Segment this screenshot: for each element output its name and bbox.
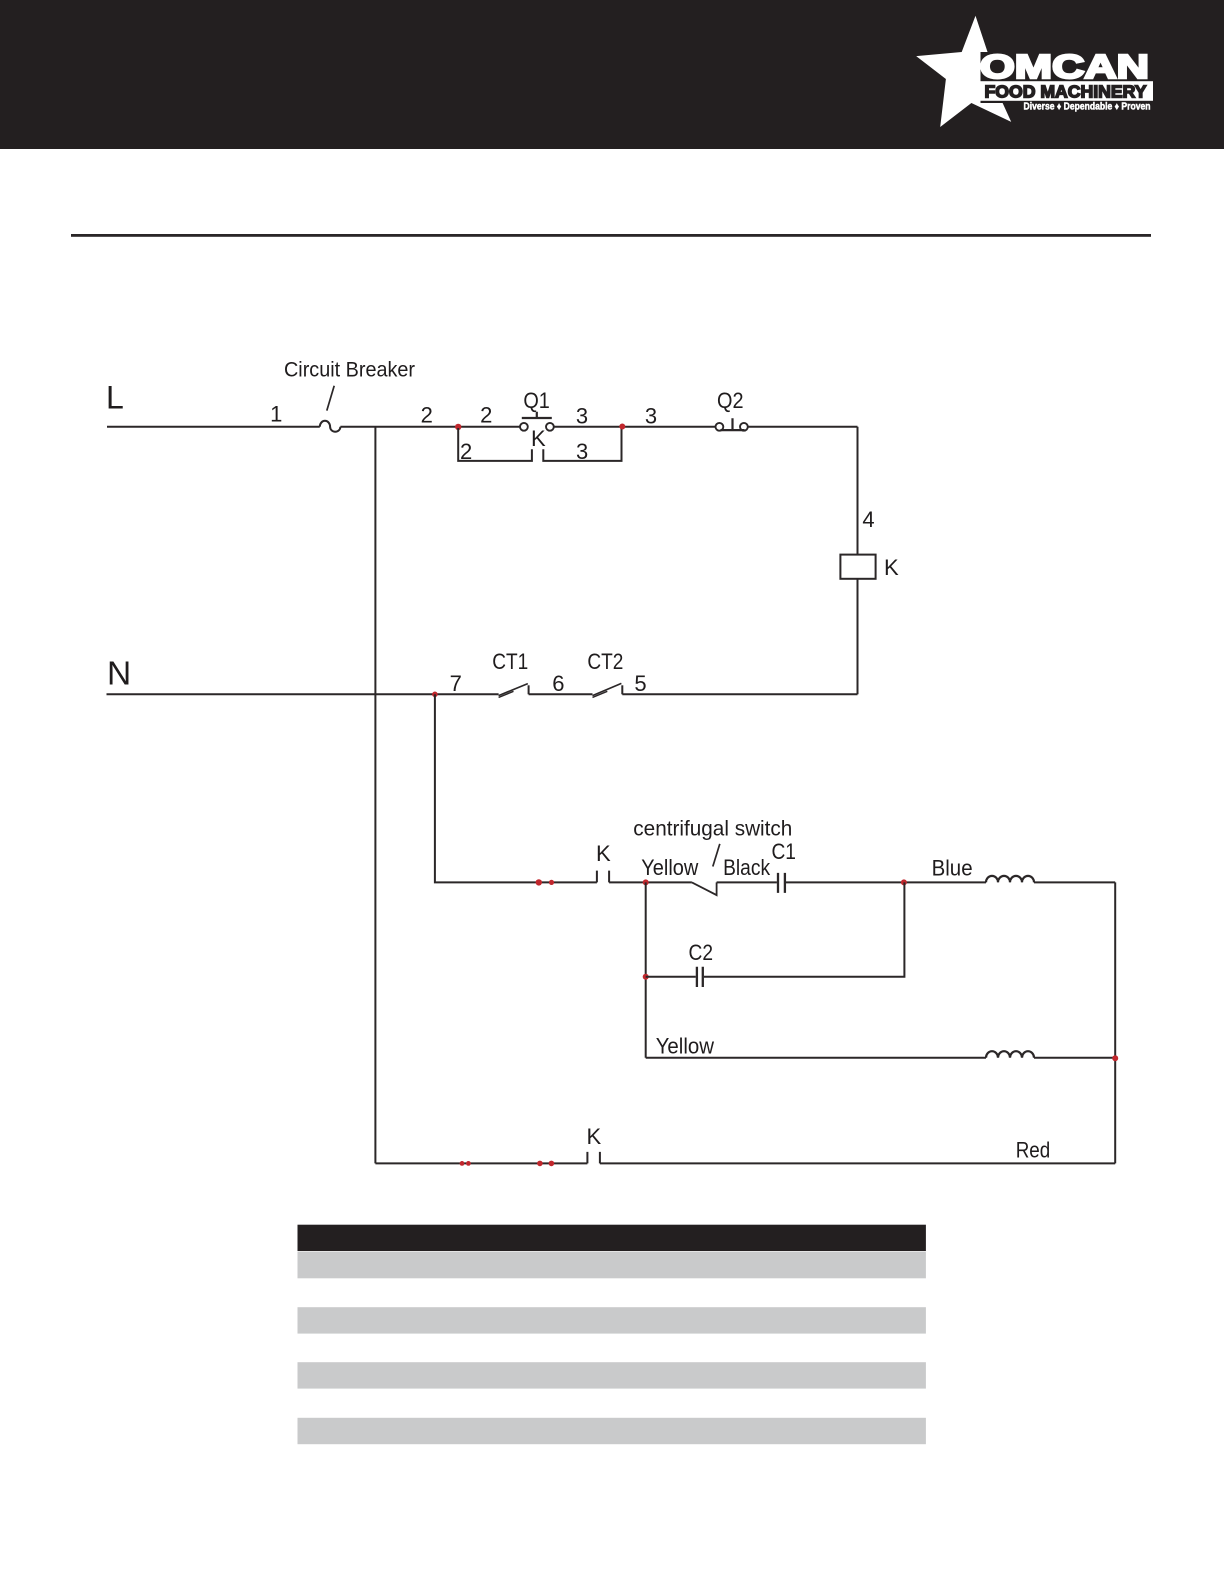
wire junction Yellow down through C2 node — [645, 882, 647, 1057]
svg-text:K: K — [586, 1124, 601, 1149]
svg-text:7: 7 — [450, 671, 462, 696]
svg-text:K: K — [531, 426, 546, 451]
wire winding to right vertical — [1034, 1057, 1115, 1059]
svg-text:C1: C1 — [771, 839, 796, 864]
wire CT2 to coil branch — [622, 693, 857, 695]
svg-text:Blue: Blue — [932, 855, 973, 880]
inductor auxiliary winding (Yellow) — [986, 1051, 1034, 1058]
capacitor C2 — [697, 967, 703, 987]
circuit breaker leader line — [327, 386, 334, 411]
table row bar 1 — [298, 1252, 926, 1278]
svg-text:5: 5 — [634, 671, 646, 696]
wire Red row from left vertical — [375, 1162, 587, 1164]
wire Yellow row — [646, 1057, 986, 1059]
svg-text:Diverse ♦ Dependable ♦ Proven: Diverse ♦ Dependable ♦ Proven — [1024, 102, 1151, 113]
circuit breaker symbol — [320, 421, 341, 432]
svg-text:OMCAN: OMCAN — [980, 48, 1149, 85]
relay contact K (red wire) — [587, 1152, 600, 1164]
svg-text:Red: Red — [1016, 1137, 1050, 1162]
inductor main winding (Blue) — [986, 876, 1034, 882]
header black banner — [0, 0, 1224, 149]
svg-text:Yellow: Yellow — [656, 1033, 714, 1058]
svg-text:Q2: Q2 — [717, 388, 744, 413]
svg-text:6: 6 — [552, 671, 564, 696]
wire down to relay coil — [857, 427, 859, 555]
FOOD MACHINERY box — [979, 81, 1153, 101]
table row bar 2 — [298, 1307, 926, 1333]
svg-text:2: 2 — [421, 403, 433, 428]
svg-text:1: 1 — [270, 402, 282, 427]
svg-text:3: 3 — [645, 403, 657, 428]
node junction dot 3 — [619, 424, 625, 430]
OMCAN logo text block backing — [981, 52, 1176, 103]
wire C2 branch right and up — [704, 882, 905, 976]
node dots on Red row — [460, 1161, 465, 1166]
OMCAN logo star — [916, 16, 1035, 127]
wire C1 to main winding — [786, 881, 986, 883]
node junction dot 7 — [432, 692, 438, 698]
node junction dot C2 — [643, 974, 649, 980]
relay contact K bracket right (terminal 3) — [543, 428, 621, 461]
wire right vertical — [1114, 882, 1116, 1163]
wire from coil to N row — [857, 579, 859, 695]
node junction dot Yellow — [643, 879, 649, 885]
table row bar 3 — [298, 1362, 926, 1388]
svg-text:Yellow: Yellow — [641, 855, 698, 880]
thermal contact CT1 — [499, 684, 529, 698]
relay coil K — [840, 555, 875, 579]
svg-text:L: L — [106, 379, 124, 415]
table row bar 4 — [298, 1418, 926, 1444]
node junction dot 2 — [455, 424, 461, 430]
thermal contact CT2 — [593, 683, 623, 697]
svg-text:3: 3 — [576, 439, 588, 464]
node dots on motor feed wire — [536, 879, 542, 885]
svg-text:4: 4 — [862, 507, 874, 532]
push button Q2 (NO) — [716, 418, 748, 430]
wire Red row to right vertical — [600, 1162, 1115, 1164]
svg-text:2: 2 — [460, 439, 472, 464]
svg-text:K: K — [596, 841, 611, 866]
wire C2 branch left — [646, 976, 696, 978]
wire long left vertical from node 2 to Red row — [374, 427, 376, 1164]
svg-text:CT2: CT2 — [587, 649, 623, 674]
capacitor C1 — [778, 873, 785, 893]
wire L from terminal to circuit breaker — [107, 426, 320, 428]
wire CT1 to CT2 — [529, 693, 593, 695]
OMCAN logo star cut strip — [976, 53, 980, 102]
push button Q1 (NC) — [520, 412, 554, 431]
svg-text:CT1: CT1 — [492, 649, 528, 674]
node junction dot Blue — [901, 879, 907, 885]
relay contact K (motor circuit) — [597, 871, 609, 883]
horizontal divider rule — [71, 234, 1151, 237]
centrifugal switch leader line — [713, 844, 720, 867]
wire centrifugal switch to C1 — [717, 881, 777, 883]
node junction dot right — [1112, 1055, 1118, 1061]
svg-text:3: 3 — [576, 403, 588, 428]
svg-text:K: K — [884, 555, 899, 580]
svg-text:Circuit Breaker: Circuit Breaker — [284, 358, 415, 381]
wire from Q2 to right corner — [748, 426, 858, 428]
centrifugal switch contact — [692, 882, 717, 895]
table header bar — [298, 1225, 926, 1251]
svg-text:Q1: Q1 — [523, 388, 550, 413]
wire from Q1 to Q2 — [554, 426, 715, 428]
svg-text:2: 2 — [480, 403, 492, 428]
wire N to CT1 — [107, 693, 499, 695]
wire from breaker to Q1 — [340, 426, 520, 428]
wire from contact K to centrifugal switch — [609, 881, 692, 883]
svg-text:N: N — [107, 656, 131, 693]
wire winding to right vertical — [1034, 881, 1115, 883]
svg-text:Black: Black — [723, 855, 771, 880]
relay contact K bracket left (terminal 2) — [458, 428, 532, 461]
wire from node 7 down and right to contact K — [435, 694, 597, 882]
svg-text:FOOD MACHINERY: FOOD MACHINERY — [985, 81, 1147, 101]
svg-text:centrifugal switch: centrifugal switch — [633, 817, 792, 841]
svg-text:C2: C2 — [689, 940, 714, 965]
